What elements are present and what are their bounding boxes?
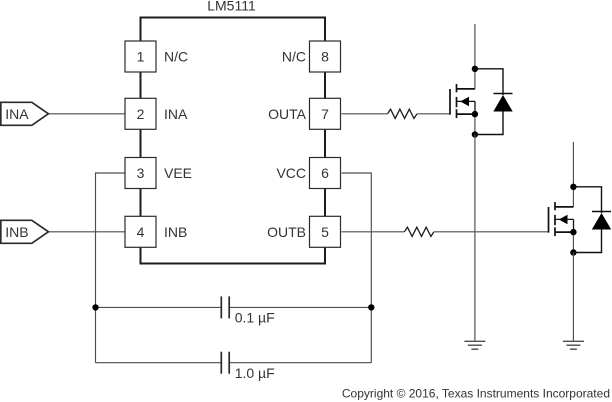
svg-text:LM5111: LM5111 [207, 0, 256, 14]
svg-text:Copyright © 2016, Texas Instru: Copyright © 2016, Texas Instruments Inco… [342, 387, 610, 401]
pin 5 box [310, 216, 341, 247]
diode D2 wiring bottom [573, 230, 601, 253]
svg-text:7: 7 [321, 106, 329, 122]
junction dot Q2 drain [570, 184, 576, 190]
transistor Q2 gate bar [548, 207, 550, 233]
svg-text:VCC: VCC [276, 165, 306, 181]
wire 1.0uF rail left [96, 362, 222, 364]
transistor Q2 source stub [555, 231, 573, 233]
op-amp U1 LM5111 IC body outline [141, 18, 326, 264]
junction dot VCC/0.1uF [368, 304, 374, 310]
wire 0.1uF rail left [96, 306, 222, 308]
ground GND1 [464, 341, 485, 349]
pin 8 box [310, 41, 341, 72]
junction dot Q1 source [472, 111, 478, 117]
svg-text:N/C: N/C [282, 49, 306, 65]
junction dot VEE/0.1uF [92, 304, 98, 310]
transistor Q2 body to source [573, 219, 575, 232]
wire drain feed Q2 [572, 142, 574, 207]
wire INB tag to pin 4 [48, 231, 125, 233]
wire resistor R2 to gate Q2 [434, 231, 549, 233]
transistor Q2 channel segments [554, 202, 556, 210]
junction dot Q1 drain [472, 66, 478, 72]
wire VCC rail down to 1.0uF rail [370, 307, 372, 362]
transistor Q1 drain stub [457, 88, 475, 90]
diode D1 wiring bottom [475, 112, 503, 135]
pin 2 box [125, 98, 156, 129]
diode D2 cathode bar [592, 211, 611, 213]
svg-text:N/C: N/C [164, 49, 188, 65]
svg-text:2: 2 [137, 106, 145, 122]
transistor Q1 body to source [474, 101, 476, 114]
pin 4 box [125, 216, 156, 247]
transistor Q2 with body diode D2 [549, 142, 574, 253]
svg-text:3: 3 [137, 165, 145, 181]
wire Q1 source down [474, 114, 476, 134]
transistor Q1 channel segments [456, 84, 458, 92]
transistor Q2 body arrow [559, 215, 568, 224]
pin 6 box [310, 158, 341, 189]
wire INA tag to pin 2 [48, 113, 125, 115]
junction dot Q2 source lower [570, 249, 576, 255]
junction dot Q2 source [570, 229, 576, 235]
input tag INA [1, 102, 49, 125]
diode D1 wiring top [475, 69, 503, 95]
svg-text:INA: INA [5, 106, 29, 122]
diode D2 wiring top [573, 187, 601, 213]
svg-text:6: 6 [321, 165, 329, 181]
svg-text:INB: INB [5, 224, 28, 240]
wire 1.0uF rail right [229, 362, 371, 364]
pin 1 box [125, 41, 156, 72]
wire Q2 source to ground [572, 253, 574, 342]
svg-text:8: 8 [321, 49, 329, 65]
transistor Q1 body stub [457, 100, 475, 102]
diode D1 cathode bar [494, 93, 513, 95]
wire Q2 source down [572, 232, 574, 252]
svg-text:INA: INA [164, 106, 188, 122]
transistor Q1 gate bar [449, 89, 451, 115]
ground GND2 [563, 341, 584, 349]
diode D1 triangle [493, 95, 512, 112]
transistor Q2 drain stub [555, 206, 573, 208]
svg-text:OUTB: OUTB [267, 224, 306, 240]
wire resistor R1 to gate Q1 [417, 113, 450, 115]
capacitor C1 0.1 uF [220, 296, 222, 318]
wire drain feed Q1 [474, 24, 476, 89]
wire VCC pin 6 right [342, 173, 372, 307]
svg-text:4: 4 [137, 224, 145, 240]
svg-text:INB: INB [164, 224, 187, 240]
diode D2 triangle [592, 213, 611, 230]
transistor Q1 with body diode D1 [450, 24, 475, 135]
junction dot Q1 source lower [472, 131, 478, 137]
svg-text:OUTA: OUTA [268, 106, 307, 122]
svg-text:1.0 µF: 1.0 µF [235, 365, 275, 381]
wire VEE rail down to 1.0uF rail [95, 307, 97, 362]
wire OUTB pin 5 to resistor [342, 231, 405, 233]
transistor Q2 body stub [556, 218, 574, 220]
pin 3 box [125, 158, 156, 189]
wire Q1 source to ground [474, 135, 476, 342]
svg-text:0.1 µF: 0.1 µF [235, 310, 275, 326]
capacitor C2 1.0 uF [220, 352, 222, 374]
resistor R1 [388, 109, 418, 118]
svg-text:5: 5 [321, 224, 329, 240]
wire VEE pin 3 left [96, 173, 126, 307]
input tag INB [1, 220, 49, 243]
transistor Q1 body arrow [460, 97, 469, 106]
wire 0.1uF rail right [229, 306, 371, 308]
pin 7 box [310, 98, 341, 129]
svg-text:1: 1 [137, 49, 145, 65]
svg-text:VEE: VEE [164, 165, 192, 181]
resistor R2 [404, 227, 434, 236]
wire OUTA pin 7 to resistor [342, 113, 388, 115]
transistor Q1 source stub [457, 113, 475, 115]
